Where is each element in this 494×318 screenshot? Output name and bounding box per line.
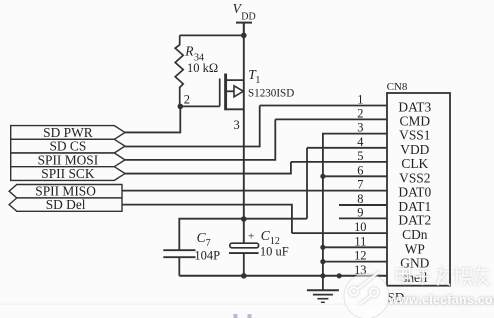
- flag SD PWR: [11, 125, 125, 140]
- capacitor C12 10uF: [229, 228, 289, 276]
- svg-text:3: 3: [233, 118, 239, 132]
- svg-text:CDn: CDn: [402, 227, 428, 242]
- svg-text:9: 9: [357, 205, 363, 219]
- svg-text:10 uF: 10 uF: [260, 244, 289, 258]
- junction dot rail-resistor: [241, 33, 247, 39]
- svg-text:6: 6: [357, 163, 363, 177]
- svg-text:5: 5: [357, 149, 363, 163]
- svg-text:1: 1: [357, 93, 363, 107]
- svg-text:VSS2: VSS2: [399, 170, 430, 185]
- blue speck left: [234, 314, 238, 318]
- svg-text:CMD: CMD: [400, 113, 431, 128]
- svg-text:12: 12: [354, 249, 366, 263]
- transistor T1 S1230ISD: [220, 67, 295, 110]
- watermark faint rule: [0, 304, 494, 305]
- svg-text:DAT2: DAT2: [398, 212, 431, 227]
- capacitor C7 104P: [163, 230, 220, 276]
- junction dot bus pin13: [337, 273, 342, 278]
- svg-text:11: 11: [354, 234, 366, 248]
- svg-text:10 kΩ: 10 kΩ: [187, 61, 218, 75]
- svg-text:SPII SCK: SPII SCK: [41, 166, 95, 181]
- svg-text:7: 7: [357, 178, 363, 192]
- junction dot bus C12: [241, 273, 247, 279]
- svg-text:R: R: [184, 43, 194, 58]
- svg-text:VDD: VDD: [400, 142, 429, 157]
- svg-text:VSS1: VSS1: [399, 128, 430, 143]
- flag SPII MISO: [9, 184, 122, 199]
- svg-text:CN8: CN8: [387, 81, 408, 93]
- wire rail to resistor top: [180, 34, 244, 36]
- wire SD PWR to node 2: [125, 106, 180, 132]
- blue speck right: [248, 314, 252, 318]
- wire pin 3: [323, 134, 387, 177]
- svg-text:DAT3: DAT3: [398, 100, 431, 115]
- wire cap top: [179, 219, 307, 250]
- wire pin 10: [292, 232, 387, 234]
- wire ground vertical: [322, 176, 324, 289]
- svg-text:104P: 104P: [194, 249, 220, 263]
- svg-text:S1230ISD: S1230ISD: [248, 88, 294, 100]
- watermark logo disc: [344, 272, 389, 318]
- wire pin 12: [323, 261, 387, 263]
- junction dot gnd bus: [320, 273, 325, 278]
- svg-text:1: 1: [255, 75, 260, 86]
- svg-text:WP: WP: [405, 241, 425, 256]
- wire SPII SCK to pin 5: [125, 162, 291, 174]
- svg-text:CLK: CLK: [401, 156, 428, 171]
- connector CN8: [387, 81, 450, 286]
- flag SPII MOSI: [11, 152, 125, 167]
- wire pin 9 stub: [339, 217, 387, 219]
- resistor R34: [175, 35, 218, 106]
- watermark url text: [388, 293, 494, 307]
- svg-text:DD: DD: [241, 11, 255, 22]
- svg-text:2: 2: [357, 106, 363, 120]
- wire pin 1: [260, 105, 387, 107]
- flag SD CS: [11, 139, 125, 154]
- svg-text:2: 2: [184, 92, 190, 106]
- wire pin 8 stub: [339, 204, 387, 206]
- svg-text:+: +: [248, 230, 254, 242]
- wire pin 6: [323, 175, 387, 177]
- wire gate lead: [180, 105, 219, 107]
- node 2: [178, 104, 184, 110]
- wire pin 13 ground bus: [179, 275, 387, 277]
- flag SPII SCK: [11, 166, 125, 181]
- wire pin 5: [291, 161, 387, 163]
- svg-text:8: 8: [357, 192, 363, 206]
- junction dot gnd pin6: [320, 174, 325, 179]
- svg-text:www.elecfans.com: www.elecfans.com: [388, 293, 494, 307]
- svg-text:DAT0: DAT0: [398, 185, 431, 200]
- wire VDD rail vertical: [243, 23, 245, 244]
- wire SD CS to pin 1: [125, 106, 260, 147]
- svg-text:SD Del: SD Del: [46, 197, 86, 212]
- wire pin 11: [323, 246, 387, 248]
- power VDD: [233, 1, 256, 36]
- junction dot rail cap wire: [241, 216, 247, 222]
- wire SD Del to pin 10: [122, 205, 292, 234]
- svg-text:10: 10: [354, 220, 366, 234]
- junction dot gnd pin12: [320, 259, 325, 264]
- svg-text:3: 3: [357, 121, 363, 135]
- wire VDD pin 4 drop: [306, 148, 308, 219]
- wire pin 2: [275, 118, 387, 120]
- wire pin 4: [307, 147, 387, 149]
- svg-text:7: 7: [206, 238, 211, 249]
- wire pin 7 MISO: [122, 190, 387, 192]
- svg-text:4: 4: [357, 135, 363, 149]
- wire SPII MOSI to pin 2: [125, 119, 275, 159]
- flag SD Del: [9, 197, 122, 212]
- ground: [307, 290, 339, 302]
- watermark chinese characters: [397, 266, 490, 286]
- junction dot gnd pin11: [320, 245, 325, 250]
